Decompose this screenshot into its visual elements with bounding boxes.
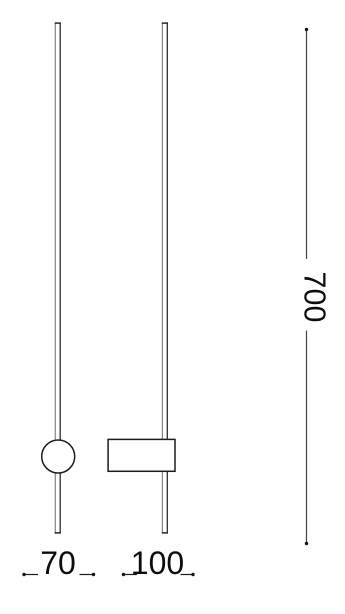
- dimension 70: left end dot: [22, 573, 25, 576]
- ball diffuser on left rod: [42, 440, 75, 473]
- wall box on right rod: [108, 439, 175, 471]
- svg-text:70: 70: [40, 545, 76, 581]
- right rod (vertical tube): [162, 23, 168, 533]
- dimension 700: lower segment: [306, 331, 308, 544]
- dimension 700: top end dot: [305, 28, 308, 31]
- dimension 100: right segment: [181, 574, 194, 576]
- dimension 100: right end dot: [191, 573, 194, 576]
- dimension 100: left end dot: [122, 573, 125, 576]
- dimension 100: left segment: [124, 574, 137, 576]
- left rod (vertical tube): [55, 23, 61, 533]
- svg-text:700: 700: [297, 272, 331, 323]
- dimension 70: right end dot: [92, 573, 95, 576]
- dimension 700: upper segment: [306, 30, 308, 260]
- dimension 70: right segment: [80, 574, 94, 576]
- svg-text:100: 100: [131, 545, 184, 581]
- dimension 700: bottom end dot: [305, 542, 308, 545]
- dimension 70: left segment: [24, 574, 38, 576]
